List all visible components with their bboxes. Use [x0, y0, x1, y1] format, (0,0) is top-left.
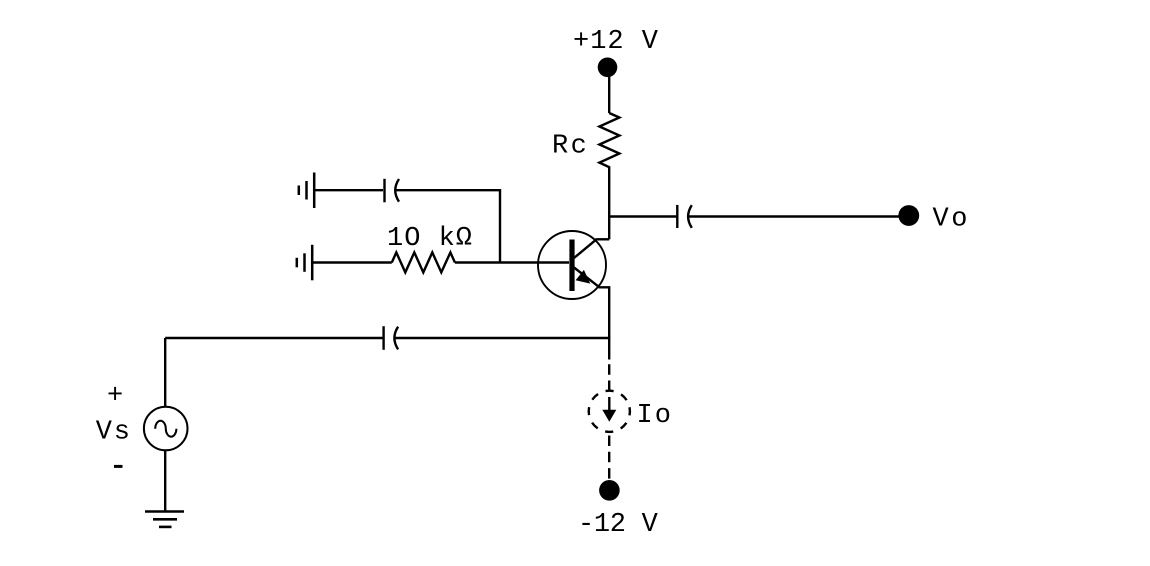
- wire output capacitor to Vo: [689, 215, 900, 217]
- svg-text:Vs: Vs: [96, 418, 132, 448]
- wire collector jog to vertical bus: [596, 238, 610, 240]
- node -12V terminal dot: [599, 480, 620, 501]
- wire capacitor C3 to emitter bus: [395, 337, 611, 339]
- node +12V terminal dot: [598, 58, 618, 78]
- svg-text:Vo: Vo: [933, 205, 970, 235]
- svg-text:Io: Io: [637, 401, 673, 431]
- wire ground to capacitor C1: [314, 189, 383, 191]
- wire Rc bottom to collector corner: [608, 176, 610, 239]
- svg-text:Rc: Rc: [552, 132, 589, 162]
- ground mid-left (rotated): [297, 245, 312, 280]
- capacitor C2 output coupling: [677, 205, 692, 228]
- ground under Vs: [145, 512, 184, 527]
- wire source line y=338 left segment: [165, 337, 382, 339]
- node Vo terminal dot: [898, 205, 919, 226]
- resistor R1 10k: [392, 252, 455, 272]
- capacitor C1: [385, 179, 400, 203]
- wire collector node to output capacitor: [609, 215, 676, 217]
- wire emitter jog and down to source node: [599, 287, 610, 359]
- wire capacitor C1 to corner and down to base wire: [396, 190, 500, 262]
- transistor Q1: [538, 231, 606, 299]
- resistor Rc: [599, 113, 619, 176]
- capacitor C3 input coupling: [384, 326, 399, 350]
- source Vs: [144, 338, 188, 511]
- current source Io (dashed): [585, 360, 633, 481]
- svg-text:-12 V: -12 V: [578, 510, 659, 540]
- svg-text:1O kΩ: 1O kΩ: [387, 224, 473, 254]
- svg-text:+: +: [107, 382, 124, 412]
- ground top-left (rotated): [299, 173, 314, 209]
- wire ground to resistor R1: [312, 261, 392, 263]
- wire resistor R1 to base: [455, 261, 569, 263]
- label - of Vs (hyphen drawn as line): [114, 465, 123, 468]
- svg-text:+12 V: +12 V: [573, 27, 659, 57]
- wire +12V dot to Rc top: [608, 76, 610, 113]
